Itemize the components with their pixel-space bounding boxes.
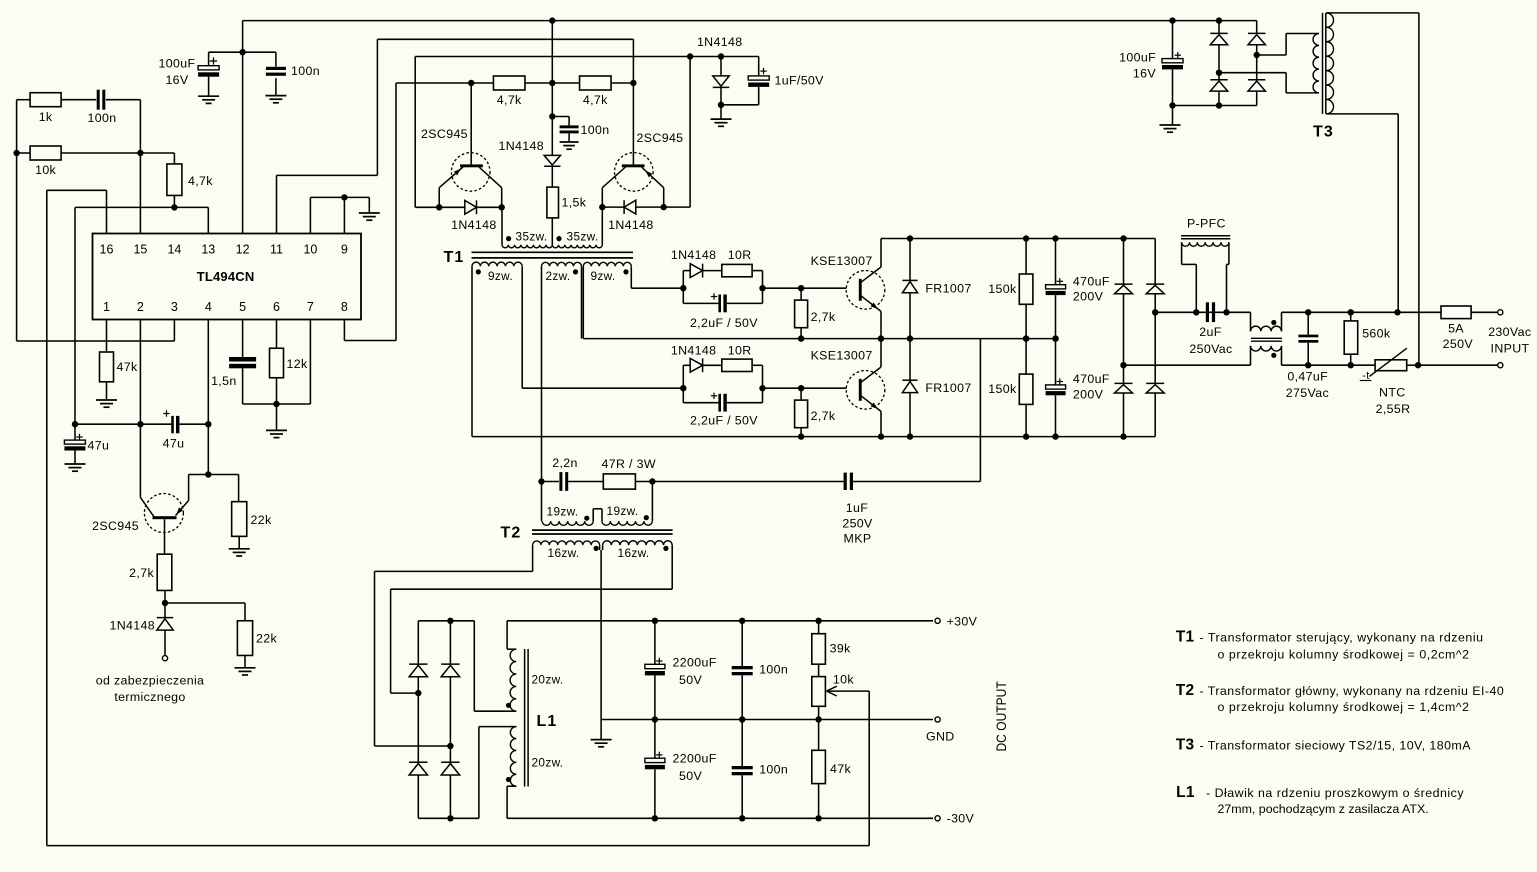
- svg-text:T3: T3: [1313, 124, 1334, 141]
- svg-text:19zw.: 19zw.: [607, 504, 639, 518]
- svg-text:2,7k: 2,7k: [811, 310, 836, 324]
- svg-text:10R: 10R: [728, 248, 752, 262]
- svg-text:22k: 22k: [251, 513, 272, 527]
- svg-text:2: 2: [137, 300, 144, 314]
- svg-text:T2: T2: [500, 525, 521, 542]
- svg-text:230Vac: 230Vac: [1488, 325, 1531, 339]
- svg-text:15: 15: [133, 243, 147, 257]
- svg-text:P-PFC: P-PFC: [1187, 216, 1226, 230]
- svg-text:560k: 560k: [1362, 327, 1391, 341]
- svg-text:2SC945: 2SC945: [637, 131, 684, 145]
- svg-text:4,7k: 4,7k: [188, 174, 213, 188]
- svg-text:1uF/50V: 1uF/50V: [775, 74, 825, 88]
- svg-text:47u: 47u: [88, 439, 110, 453]
- svg-text:GND: GND: [926, 729, 955, 743]
- svg-text:2,7k: 2,7k: [129, 566, 154, 580]
- svg-text:KSE13007: KSE13007: [811, 254, 873, 268]
- svg-text:1N4148: 1N4148: [671, 248, 717, 262]
- svg-text:2200uF: 2200uF: [673, 751, 717, 765]
- svg-text:16V: 16V: [1133, 67, 1156, 81]
- svg-text:-30V: -30V: [947, 812, 975, 826]
- svg-text:1,5n: 1,5n: [211, 374, 237, 388]
- svg-text:T3: T3: [1176, 737, 1195, 754]
- svg-text:16V: 16V: [165, 73, 188, 87]
- svg-text:T2: T2: [1176, 682, 1195, 699]
- svg-text:39k: 39k: [830, 642, 851, 656]
- svg-text:16zw.: 16zw.: [548, 546, 580, 560]
- svg-text:2,2uF / 50V: 2,2uF / 50V: [690, 316, 758, 330]
- svg-text:100n: 100n: [759, 662, 788, 676]
- svg-text:9zw.: 9zw.: [590, 269, 615, 283]
- svg-text:2uF: 2uF: [1199, 325, 1221, 339]
- svg-text:10R: 10R: [728, 344, 752, 358]
- svg-text:1k: 1k: [39, 110, 53, 124]
- svg-text:16zw.: 16zw.: [618, 546, 650, 560]
- svg-text:35zw.: 35zw.: [516, 230, 548, 244]
- svg-text:0,47uF: 0,47uF: [1287, 370, 1328, 384]
- svg-text:22k: 22k: [256, 632, 277, 646]
- svg-text:+30V: +30V: [947, 614, 978, 628]
- svg-text:14: 14: [167, 243, 181, 257]
- svg-text:12: 12: [236, 243, 250, 257]
- svg-text:L1: L1: [536, 713, 557, 730]
- svg-text:2,2n: 2,2n: [552, 456, 578, 470]
- svg-text:47R / 3W: 47R / 3W: [601, 457, 655, 471]
- svg-text:2SC945: 2SC945: [421, 127, 468, 141]
- svg-text:11: 11: [270, 243, 283, 257]
- svg-text:2,55R: 2,55R: [1376, 402, 1411, 416]
- svg-text:35zw.: 35zw.: [567, 230, 599, 244]
- svg-text:DC OUTPUT: DC OUTPUT: [993, 681, 1009, 752]
- svg-text:250Vac: 250Vac: [1189, 342, 1232, 356]
- svg-text:5: 5: [239, 300, 246, 314]
- svg-text:od zabezpieczenia: od zabezpieczenia: [96, 674, 205, 688]
- svg-text:1,5k: 1,5k: [562, 196, 587, 210]
- svg-text:termicznego: termicznego: [114, 690, 185, 704]
- svg-text:- Transformator główny, wykona: - Transformator główny, wykonany na rdze…: [1200, 684, 1505, 698]
- svg-text:19zw.: 19zw.: [547, 505, 579, 519]
- svg-text:13: 13: [201, 243, 215, 257]
- svg-text:2200uF: 2200uF: [673, 655, 717, 669]
- svg-text:10: 10: [303, 243, 317, 257]
- svg-text:L1: L1: [1176, 784, 1195, 801]
- svg-text:150k: 150k: [988, 382, 1017, 396]
- svg-text:1N4148: 1N4148: [697, 35, 743, 49]
- svg-text:10k: 10k: [35, 163, 56, 177]
- svg-text:100n: 100n: [291, 64, 320, 78]
- svg-text:TL494CN: TL494CN: [197, 269, 255, 284]
- svg-text:50V: 50V: [679, 673, 702, 687]
- svg-text:470uF: 470uF: [1073, 274, 1110, 288]
- svg-text:50V: 50V: [679, 769, 702, 783]
- svg-text:2,2uF / 50V: 2,2uF / 50V: [690, 413, 758, 427]
- svg-text:1N4148: 1N4148: [109, 619, 155, 633]
- svg-text:16: 16: [100, 243, 114, 257]
- svg-text:47k: 47k: [117, 360, 138, 374]
- svg-text:9: 9: [341, 243, 348, 257]
- svg-text:1N4148: 1N4148: [451, 218, 497, 232]
- svg-text:10k: 10k: [833, 672, 854, 686]
- svg-text:2,7k: 2,7k: [811, 409, 836, 423]
- svg-text:100uF: 100uF: [159, 57, 196, 71]
- svg-text:o przekroju kolumny środkowej: o przekroju kolumny środkowej = 1,4cm^2: [1218, 700, 1470, 714]
- svg-text:1N4148: 1N4148: [608, 218, 654, 232]
- svg-text:6: 6: [273, 300, 280, 314]
- svg-text:200V: 200V: [1073, 290, 1104, 304]
- svg-text:100n: 100n: [759, 762, 788, 776]
- svg-text:9zw.: 9zw.: [488, 269, 513, 283]
- svg-text:1N4148: 1N4148: [498, 139, 544, 153]
- svg-text:FR1007: FR1007: [925, 381, 971, 395]
- svg-text:250V: 250V: [1443, 337, 1474, 351]
- svg-text:47u: 47u: [163, 437, 185, 451]
- svg-text:200V: 200V: [1073, 387, 1104, 401]
- svg-text:3: 3: [171, 300, 178, 314]
- svg-text:8: 8: [341, 300, 348, 314]
- svg-text:INPUT: INPUT: [1491, 342, 1530, 356]
- svg-text:4: 4: [205, 300, 212, 314]
- svg-text:KSE13007: KSE13007: [811, 349, 873, 363]
- svg-text:7: 7: [307, 300, 314, 314]
- svg-text:2zw.: 2zw.: [545, 269, 570, 283]
- svg-text:NTC: NTC: [1379, 385, 1406, 399]
- svg-text:20zw.: 20zw.: [532, 756, 564, 770]
- svg-text:12k: 12k: [287, 357, 308, 371]
- svg-text:27mm, pochodzącym z zasilacza: 27mm, pochodzącym z zasilacza ATX.: [1218, 802, 1429, 816]
- svg-text:47k: 47k: [830, 762, 851, 776]
- svg-text:1: 1: [103, 300, 110, 314]
- svg-text:4,7k: 4,7k: [583, 93, 608, 107]
- svg-text:250V: 250V: [842, 516, 873, 530]
- svg-text:- Transformator sieciowy TS2/1: - Transformator sieciowy TS2/15, 10V, 18…: [1200, 739, 1472, 753]
- svg-text:1uF: 1uF: [846, 501, 868, 515]
- svg-text:o przekroju kolumny środkowej: o przekroju kolumny środkowej = 0,2cm^2: [1218, 647, 1470, 661]
- svg-text:150k: 150k: [988, 282, 1017, 296]
- svg-text:20zw.: 20zw.: [532, 673, 564, 687]
- svg-text:5A: 5A: [1448, 322, 1464, 336]
- svg-text:- Transformator sterujący, wyk: - Transformator sterujący, wykonany na r…: [1200, 631, 1484, 645]
- svg-text:4,7k: 4,7k: [497, 93, 522, 107]
- svg-text:2SC945: 2SC945: [92, 519, 139, 533]
- svg-text:T1: T1: [443, 249, 464, 266]
- svg-text:100n: 100n: [581, 123, 610, 137]
- svg-text:1N4148: 1N4148: [671, 344, 717, 358]
- svg-text:- Dławik na rdzeniu proszkowym: - Dławik na rdzeniu proszkowym o średnic…: [1206, 786, 1464, 800]
- svg-text:100n: 100n: [88, 111, 117, 125]
- svg-text:100uF: 100uF: [1119, 50, 1156, 64]
- svg-text:FR1007: FR1007: [925, 281, 971, 295]
- svg-text:470uF: 470uF: [1073, 372, 1110, 386]
- svg-text:MKP: MKP: [844, 532, 872, 546]
- svg-text:275Vac: 275Vac: [1286, 386, 1329, 400]
- svg-text:T1: T1: [1176, 629, 1195, 646]
